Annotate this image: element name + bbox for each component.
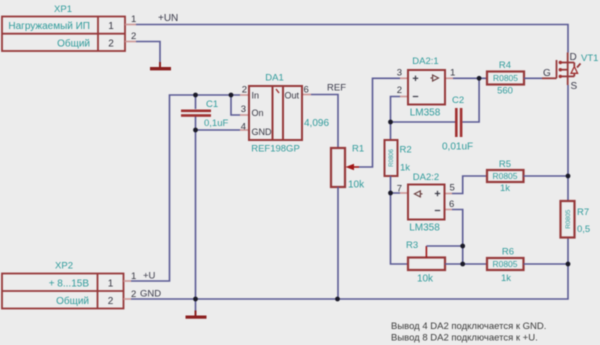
junction R3 right / R6 left / pin6 net xyxy=(460,262,465,267)
svg-text:1: 1 xyxy=(108,279,114,290)
svg-text:LM358: LM358 xyxy=(410,108,441,119)
svg-text:REF198GP: REF198GP xyxy=(251,144,300,155)
junction DA2:1 output / C2 / R4 xyxy=(477,76,482,81)
svg-text:LM358: LM358 xyxy=(409,223,440,234)
svg-text:Вывод 4 DA2 подключается к GND: Вывод 4 DA2 подключается к GND. xyxy=(391,321,546,332)
junction DA2:2 pin7 / R2 bottom / R3 left xyxy=(388,191,393,196)
svg-text:1: 1 xyxy=(108,21,114,32)
ground (on GND bus) xyxy=(186,299,207,319)
resistor R6 xyxy=(487,247,524,285)
svg-text:GND: GND xyxy=(252,127,273,137)
op-amp DA2:1 xyxy=(397,56,456,119)
svg-text:In: In xyxy=(252,91,260,101)
svg-text:REF: REF xyxy=(327,83,346,94)
svg-text:R0805: R0805 xyxy=(493,73,518,83)
svg-text:Вывод 8 DA2 подключается к +U.: Вывод 8 DA2 подключается к +U. xyxy=(391,333,538,344)
op-amp DA2:2 xyxy=(397,172,455,234)
svg-text:1k: 1k xyxy=(500,183,510,194)
capacitor C2 xyxy=(442,95,473,153)
potentiometer R3 xyxy=(406,240,445,285)
wire XP1 pin2 to ground xyxy=(136,42,160,63)
wire pin6 down to R3 right node xyxy=(452,210,463,265)
wire pin5 to R5 left xyxy=(452,176,487,194)
svg-text:D: D xyxy=(570,52,577,63)
svg-text:Нагружаемый ИП: Нагружаемый ИП xyxy=(8,21,90,32)
svg-text:1k: 1k xyxy=(400,163,410,174)
junction node A (DA2:1 pin2 / R2 top / C2) xyxy=(388,120,393,125)
svg-text:+UN: +UN xyxy=(158,13,178,24)
svg-text:2: 2 xyxy=(108,39,114,50)
junction R3 wiper / pin6 net xyxy=(460,244,465,249)
resistor R2 xyxy=(385,140,412,176)
svg-text:10k: 10k xyxy=(348,180,365,191)
junction R6 right / R7 bottom xyxy=(566,262,571,267)
wire R1 wiper to DA2:1 pin3 xyxy=(359,78,400,167)
svg-text:4,096: 4,096 xyxy=(304,118,329,129)
junction GND bus / ground symbol xyxy=(193,297,198,302)
connector XP1 xyxy=(2,4,136,51)
junction DA1 pin3 branch on +U rail xyxy=(229,93,234,98)
svg-text:560: 560 xyxy=(497,86,513,97)
svg-text:DA2:1: DA2:1 xyxy=(412,56,438,67)
svg-text:R7: R7 xyxy=(577,207,589,218)
svg-text:G: G xyxy=(543,68,551,79)
resistor R4 xyxy=(487,60,524,97)
wire R6 right to R7 bottom node xyxy=(524,263,569,265)
capacitor C1 xyxy=(181,99,228,129)
potentiometer R1 xyxy=(331,144,365,191)
wire R3 right to R6 left xyxy=(445,263,487,265)
svg-text:R1: R1 xyxy=(352,144,364,155)
ground (under XP1) xyxy=(150,62,171,70)
svg-text:R5: R5 xyxy=(499,159,511,170)
svg-text:3: 3 xyxy=(241,104,246,115)
svg-text:XP1: XP1 xyxy=(54,4,72,15)
svg-text:+U: +U xyxy=(143,271,156,282)
wire R5 right to source node xyxy=(524,175,569,177)
svg-text:R0805: R0805 xyxy=(492,171,517,181)
svg-text:C1: C1 xyxy=(206,99,218,110)
IC DA1 REF198GP xyxy=(240,73,311,155)
svg-text:DA1: DA1 xyxy=(265,73,283,84)
svg-text:4: 4 xyxy=(241,122,246,133)
svg-text:1: 1 xyxy=(450,68,455,79)
svg-text:1: 1 xyxy=(131,271,136,282)
svg-text:5: 5 xyxy=(450,183,455,194)
svg-text:GND: GND xyxy=(140,289,161,300)
resistor R5 xyxy=(487,159,524,194)
wire REF net (DA1 out to R1 top) xyxy=(311,95,338,149)
svg-text:3: 3 xyxy=(397,68,402,79)
wire C1/GND-pin4 of DA1 xyxy=(196,129,241,131)
svg-text:2: 2 xyxy=(242,85,247,96)
svg-text:R0805: R0805 xyxy=(492,259,517,269)
svg-text:1k: 1k xyxy=(501,273,511,284)
wire R1 bottom to GND bus xyxy=(337,187,339,299)
wire R4 to gate xyxy=(524,77,542,79)
wire +UN net top xyxy=(136,25,568,53)
svg-text:+ 8...15В: + 8...15В xyxy=(49,279,90,290)
wire DA2:1 output to R4 xyxy=(453,77,487,79)
svg-text:R3: R3 xyxy=(406,240,418,251)
svg-text:0,1uF: 0,1uF xyxy=(204,118,228,129)
svg-text:0,01uF: 0,01uF xyxy=(442,142,473,153)
svg-text:Out: Out xyxy=(285,91,300,101)
svg-text:XP2: XP2 xyxy=(55,261,73,272)
junction C1 bottom / DA1 GND xyxy=(193,128,198,133)
svg-text:2: 2 xyxy=(108,296,114,307)
svg-text:2: 2 xyxy=(131,289,136,300)
junction VT1 source / R5 / R7 top xyxy=(566,174,571,179)
svg-text:R6: R6 xyxy=(502,247,514,258)
junction C1 top on +U rail xyxy=(193,93,198,98)
svg-text:1: 1 xyxy=(131,14,136,25)
wire branch to DA1 pin3 xyxy=(231,95,240,115)
wire R3 wiper to pin6 vertical xyxy=(426,245,462,247)
svg-text:Общий: Общий xyxy=(57,38,90,50)
svg-text:2: 2 xyxy=(397,85,402,96)
svg-text:On: On xyxy=(252,108,264,118)
transistor VT1 (MOSFET) xyxy=(542,52,598,92)
svg-text:Общий: Общий xyxy=(56,295,89,307)
svg-text:S: S xyxy=(571,81,578,92)
wire C2 feedback net xyxy=(463,78,480,122)
svg-text:R0806: R0806 xyxy=(389,149,395,167)
resistor R7 xyxy=(561,201,591,238)
svg-text:6: 6 xyxy=(304,85,309,96)
svg-text:R0805: R0805 xyxy=(565,209,572,229)
wire source down right side to GND bus xyxy=(131,85,568,299)
wire R2 bottom to pin7 node xyxy=(390,176,392,193)
svg-text:R4: R4 xyxy=(499,60,511,71)
svg-text:6: 6 xyxy=(449,199,454,210)
wire C1 top lead xyxy=(195,95,197,109)
svg-text:0,5: 0,5 xyxy=(577,224,590,235)
wire DA2:1 pin2 to R2 top node xyxy=(391,97,401,141)
wire C1 bottom lead down to GND bus xyxy=(195,117,197,300)
svg-text:R2: R2 xyxy=(400,145,412,156)
svg-text:10k: 10k xyxy=(417,274,434,285)
svg-text:DA2:2: DA2:2 xyxy=(413,172,439,183)
wire +U vertical from XP2 to top rail xyxy=(131,95,240,281)
connector XP2 xyxy=(2,261,136,309)
svg-text:C2: C2 xyxy=(452,95,464,106)
wire pin7 node down to R3 left xyxy=(391,193,409,264)
svg-text:VT1: VT1 xyxy=(581,53,598,64)
svg-text:2: 2 xyxy=(131,31,136,42)
junction GND bus / R1 bottom xyxy=(335,297,340,302)
